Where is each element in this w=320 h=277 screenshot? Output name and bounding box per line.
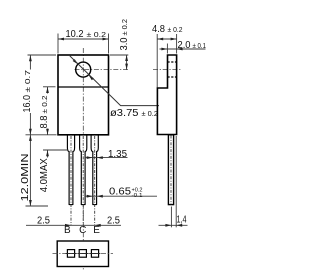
pin C lead outline (front view middle pin) [80, 135, 87, 205]
leader line for hole diameter [70, 56, 159, 106]
svg-text:2.5: 2.5 [37, 215, 50, 226]
node package-centerline (vertical dash-dot through front and bottom views) [82, 48, 84, 271]
dim 12.0MIN line [29, 135, 31, 206]
pin B lead outline (front view left pin) [67, 135, 74, 205]
front view body outline [58, 55, 109, 135]
svg-text:1.35: 1.35 [108, 149, 127, 160]
dim 2.5 line (lead spacing) [26, 224, 121, 226]
svg-text:B: B [64, 225, 71, 236]
dim 8.8 ext line (separator extended) [43, 86, 56, 88]
bottom view pin C square [79, 250, 86, 258]
bottom view pin B square [67, 250, 74, 258]
svg-text:ø3.75: ø3.75 [110, 108, 139, 119]
node pin-E centerline [94, 136, 96, 225]
dim 4.8 ext lines [156, 34, 158, 88]
side view pin lead [168, 135, 173, 205]
dim 4.0MAX ext line [43, 149, 68, 151]
node pin-C centerline [82, 136, 84, 225]
dim 10.2 ext lines [57, 34, 59, 54]
svg-text:C: C [79, 225, 86, 236]
dim 8.8 line (broken for text) [47, 87, 49, 94]
dim 4.0MAX arrow [47, 150, 49, 157]
side view outline [157, 55, 176, 135]
svg-text:E: E [93, 225, 100, 236]
node pin-B centerline [70, 136, 72, 225]
dim 3.0 line [126, 55, 128, 70]
node side-view-centerline-horizontal [153, 69, 182, 71]
dim 2.0 ext line [166, 44, 168, 54]
dim 1.4 line [159, 224, 188, 226]
dim 16.0 line (broken for text) [29, 55, 31, 70]
svg-text:± 0.2: ± 0.2 [142, 111, 159, 118]
dim 1.35 line [85, 157, 128, 159]
bottom view pin E square [91, 250, 98, 258]
svg-text:± 0.2: ± 0.2 [87, 32, 107, 39]
leader arrow for hole diameter [73, 59, 78, 64]
dim 4.8 line [157, 38, 176, 40]
svg-text:16.0: 16.0 [22, 95, 33, 113]
dim 3.0 ext line (top edge extended) [110, 54, 128, 56]
side pin centerline [170, 136, 172, 205]
dim 0.65 line [85, 195, 157, 197]
pin E lead outline (front view right pin) [91, 135, 98, 205]
svg-text:1,4: 1,4 [177, 215, 187, 226]
svg-text:10.2: 10.2 [66, 29, 84, 40]
dim 1.4 ext lines below side pin [170, 207, 172, 228]
svg-text:0.65: 0.65 [109, 187, 131, 198]
dim 10.2 line [58, 38, 109, 40]
dim 2.0 line [160, 48, 206, 50]
svg-text:± 0.2: ± 0.2 [122, 19, 129, 36]
svg-text:3.0: 3.0 [119, 37, 130, 50]
svg-text:2.0: 2.0 [178, 40, 191, 51]
front view tab separator line [58, 86, 109, 88]
bottom view horizontal centerline [53, 253, 114, 255]
bottom view body outline [57, 241, 108, 267]
svg-text:2.5: 2.5 [107, 215, 120, 226]
ext line at pin tips [26, 205, 49, 207]
dim chain ext line at body bottom [26, 134, 57, 136]
svg-text:± 0.7: ± 0.7 [25, 70, 32, 93]
side view hidden hole line upper [168, 61, 177, 63]
node hole-centerline-horizontal (front view, also ext for 3.0 dim) [75, 69, 129, 71]
svg-text:4.8: 4.8 [152, 24, 165, 35]
svg-text:4.0MAX: 4.0MAX [39, 158, 50, 192]
svg-text:± 0.1: ± 0.1 [193, 43, 207, 50]
svg-text:± 0.2: ± 0.2 [168, 27, 183, 34]
mounting hole circle [76, 62, 91, 77]
svg-text:± 0.2: ± 0.2 [42, 95, 49, 113]
svg-text:8.8: 8.8 [39, 115, 50, 128]
dim 16.0 top ext line [28, 54, 57, 56]
side view hidden hole line lower [168, 76, 177, 78]
svg-text:-0.1: -0.1 [132, 193, 143, 199]
svg-text:12.0MIN: 12.0MIN [20, 154, 31, 202]
